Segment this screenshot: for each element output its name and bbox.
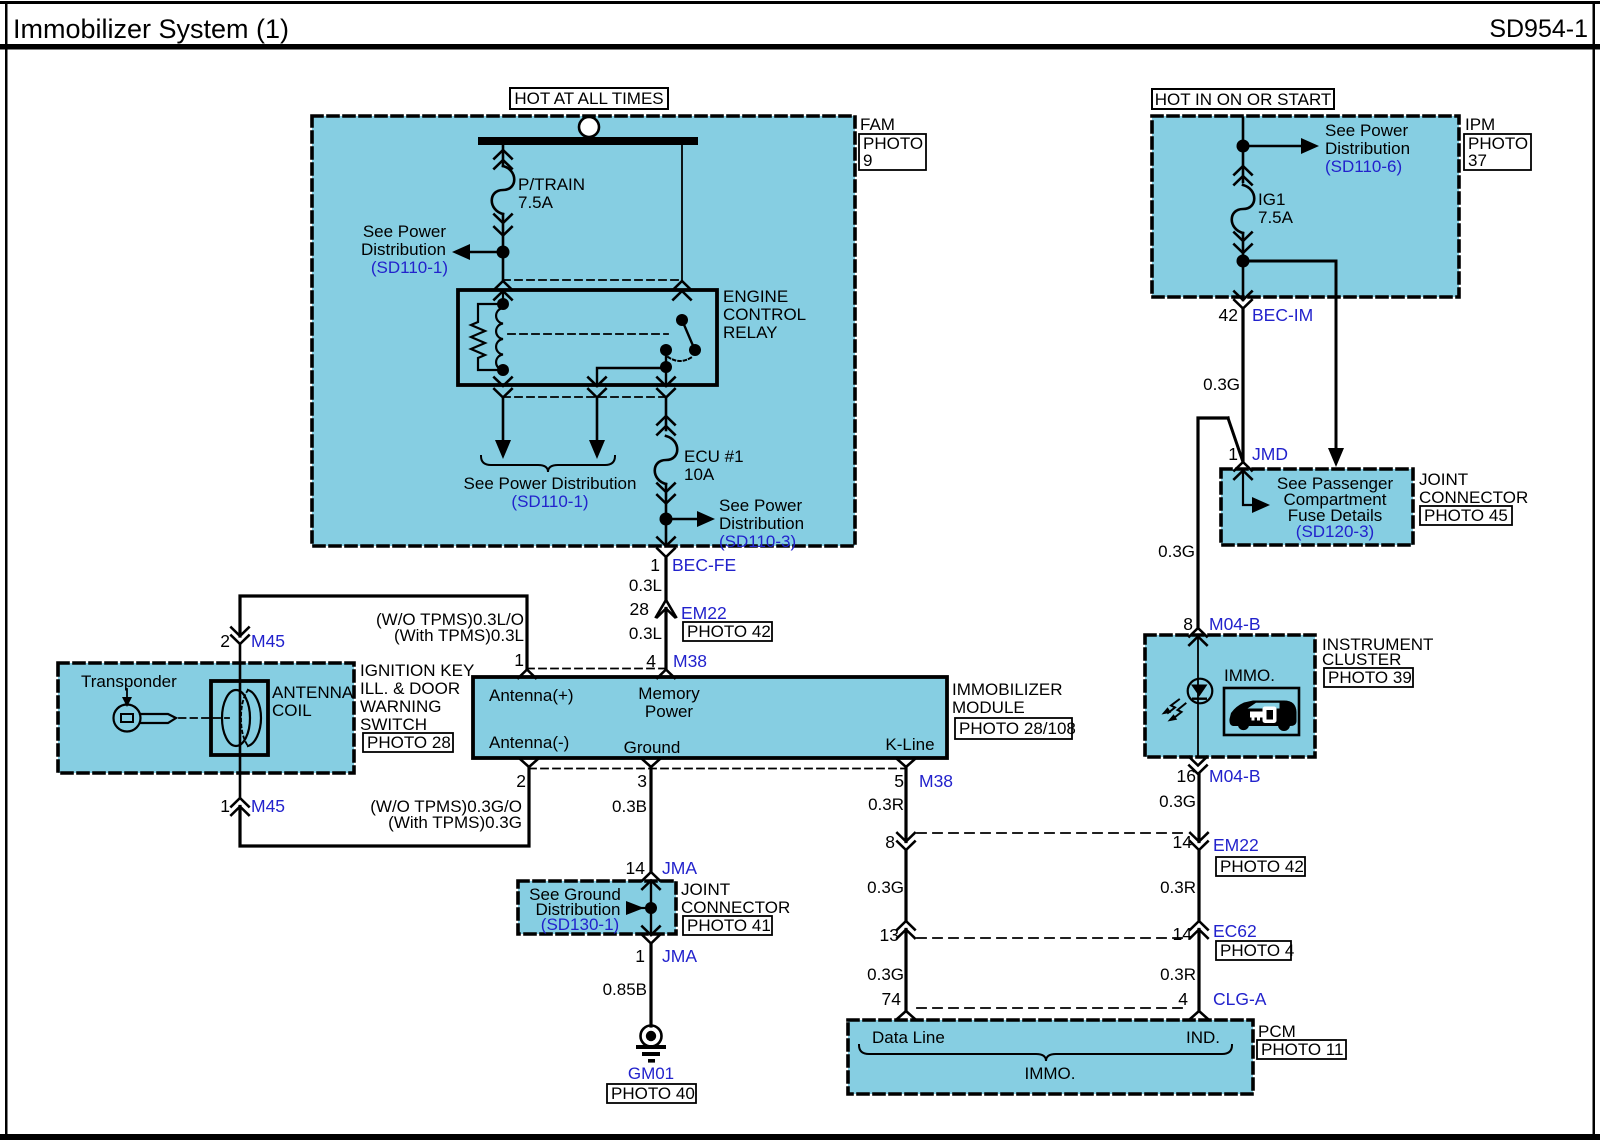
svg-text:0.3B: 0.3B — [612, 797, 647, 816]
wire fuse to FAM exit — [665, 484, 668, 546]
wire 0.3L EM22 to module — [664, 609, 667, 670]
svg-text:PHOTO 11: PHOTO 11 — [1261, 1040, 1344, 1059]
svg-text:PCM: PCM — [1258, 1022, 1296, 1041]
battery feed terminal circle — [579, 117, 599, 137]
fuse IG1 7.5A — [1232, 166, 1255, 253]
wire bottom loop M45 to module pin2 — [240, 767, 529, 846]
right wire 0.3G M04-B to EM22 — [1197, 774, 1200, 842]
svg-text:Ground: Ground — [624, 738, 681, 757]
svg-text:PHOTO 40: PHOTO 40 — [611, 1084, 695, 1103]
pin 5 chevrons module bottom — [897, 759, 916, 768]
svg-text:M38: M38 — [919, 771, 953, 791]
IPM photo ref box — [1464, 134, 1531, 170]
FAM-SECTION — [312, 88, 926, 557]
svg-text:0.3G: 0.3G — [867, 965, 904, 984]
svg-text:See Power Distribution: See Power Distribution — [464, 474, 637, 493]
PHOTO 11 ref box — [1257, 1040, 1346, 1059]
JMA node dot — [645, 902, 657, 914]
dashed link 74 to 4 — [917, 1007, 1188, 1009]
svg-text:9: 9 — [863, 151, 872, 170]
arrow down left — [495, 440, 511, 459]
svg-text:K-Line: K-Line — [885, 735, 934, 754]
svg-text:4: 4 — [1178, 989, 1188, 1009]
svg-text:SWITCH: SWITCH — [360, 715, 427, 734]
LED cathode bar — [1192, 698, 1207, 700]
wire bus to fuse P/TRAIN — [502, 145, 505, 166]
svg-text:GM01: GM01 — [628, 1064, 674, 1083]
brace see power distribution — [481, 456, 615, 472]
connector chevrons relay pin left top — [494, 281, 512, 300]
wire 0.3G down to JMD — [1241, 309, 1244, 463]
PHOTO 42 ref box lower — [1216, 857, 1305, 876]
svg-text:14: 14 — [626, 858, 646, 878]
svg-text:M38: M38 — [673, 651, 707, 671]
JMA joint connector box — [518, 881, 676, 934]
pin 4 chevrons PCM — [1190, 1011, 1209, 1020]
svg-text:EC62: EC62 — [1213, 921, 1257, 941]
antenna coil unit box — [58, 663, 354, 773]
svg-text:Antenna(-): Antenna(-) — [489, 733, 569, 752]
JMA internal arrow to node — [626, 901, 644, 915]
svg-text:See Power: See Power — [1325, 121, 1408, 140]
svg-text:JMD: JMD — [1252, 444, 1288, 464]
wire 0.3B module pin3 to JMA — [649, 767, 652, 872]
svg-text:IMMOBILIZER: IMMOBILIZER — [952, 680, 1063, 699]
svg-text:Distribution: Distribution — [361, 240, 446, 259]
PHOTO 39 ref box — [1324, 668, 1413, 687]
wire 0.85B JMA to ground — [649, 944, 652, 1027]
svg-text:MODULE: MODULE — [952, 698, 1025, 717]
svg-text:HOT AT ALL TIMES: HOT AT ALL TIMES — [514, 89, 663, 108]
svg-text:IMMO.: IMMO. — [1224, 666, 1275, 685]
svg-text:IPM: IPM — [1465, 115, 1495, 134]
svg-text:CLG-A: CLG-A — [1213, 989, 1267, 1009]
fuse ECU #1 10A — [655, 416, 678, 504]
svg-text:(SD130-1): (SD130-1) — [541, 915, 619, 934]
arrow to power distribution SD110-6 — [1243, 145, 1310, 147]
IPM exit chevrons BEC-IM — [1234, 292, 1252, 309]
dashed link 8 to 14 — [917, 832, 1188, 834]
dashed link module bottom pins — [529, 768, 906, 770]
wire bus to relay right — [681, 145, 683, 281]
wire top loop M45 to module pin1 — [240, 596, 527, 670]
diagonal wire segment — [1228, 418, 1243, 462]
svg-text:1: 1 — [514, 650, 524, 670]
dashed link 13 to 14 — [917, 937, 1188, 939]
relay bottom pin chevrons middle — [588, 378, 606, 398]
connector 13 chevrons — [897, 921, 915, 938]
connector 28 EM22 chevrons — [656, 600, 676, 617]
svg-text:0.3R: 0.3R — [1160, 965, 1196, 984]
MODULE-SECTION — [473, 555, 1076, 791]
svg-text:28: 28 — [630, 599, 649, 619]
svg-text:M45: M45 — [251, 631, 285, 651]
FAM photo ref box — [859, 134, 926, 170]
arrow to power distribution SD110-3 — [666, 518, 706, 520]
svg-text:CONNECTOR: CONNECTOR — [1419, 488, 1528, 507]
svg-text:0.3R: 0.3R — [1160, 878, 1196, 897]
svg-text:37: 37 — [1468, 151, 1487, 170]
PHOTO 4 ref box — [1216, 941, 1291, 960]
ANTENNA-SECTION — [58, 596, 529, 846]
pin 3 chevrons module bottom — [642, 759, 661, 768]
svg-text:M04-B: M04-B — [1209, 614, 1261, 634]
svg-text:PHOTO 4: PHOTO 4 — [1220, 941, 1294, 960]
pin 1 JMA chevrons — [642, 927, 660, 944]
svg-text:0.3R: 0.3R — [868, 795, 904, 814]
dashed coupling line — [179, 717, 229, 719]
svg-text:WARNING: WARNING — [360, 697, 442, 716]
JMA internal wire — [650, 881, 652, 936]
svg-text:Immobilizer System (1): Immobilizer System (1) — [13, 14, 289, 44]
dashed link relay bottom — [503, 396, 666, 398]
JMD joint connector box — [1221, 469, 1413, 545]
right wire 0.3R lower — [1197, 930, 1200, 1012]
svg-text:EM22: EM22 — [1213, 835, 1259, 855]
FAM fuse/relay box — [312, 116, 855, 546]
relay resistor (parallel) — [471, 304, 503, 370]
pin 2 chevrons module bottom — [520, 759, 539, 768]
svg-text:1: 1 — [220, 796, 230, 816]
svg-text:42: 42 — [1219, 305, 1238, 325]
pin 74 chevrons PCM — [897, 1011, 916, 1020]
svg-text:BEC-FE: BEC-FE — [672, 555, 736, 575]
svg-text:PHOTO 28/108: PHOTO 28/108 — [959, 719, 1076, 738]
dashed link relay top — [503, 279, 682, 281]
junction node dot — [1237, 255, 1250, 268]
pin 2 M45 chevrons — [231, 628, 249, 645]
PCM brace — [859, 1045, 1232, 1061]
CLUSTER-SECTION — [1145, 614, 1433, 786]
FAM exit chevrons BEC-FE — [657, 538, 675, 558]
svg-text:JMA: JMA — [662, 946, 697, 966]
car rear wheel — [1278, 719, 1290, 731]
svg-text:1: 1 — [650, 555, 660, 575]
svg-text:M04-B: M04-B — [1209, 766, 1261, 786]
IPM-SECTION — [1152, 89, 1531, 628]
K-line wire 0.3G — [904, 850, 907, 921]
car window — [1248, 703, 1280, 709]
relay box ENGINE CONTROL RELAY — [458, 290, 717, 385]
wire fuse to junction — [502, 214, 505, 281]
pin 1 M45 chevrons — [231, 798, 249, 815]
relay linkage dashed line — [508, 333, 668, 335]
svg-text:Power: Power — [645, 702, 694, 721]
svg-text:PHOTO 28: PHOTO 28 — [367, 733, 451, 752]
fuse P/TRAIN 7.5A — [492, 150, 515, 236]
svg-text:FAM: FAM — [860, 115, 895, 134]
wire relay left pin down — [502, 398, 505, 443]
svg-text:0.3L: 0.3L — [629, 576, 662, 595]
svg-text:Antenna(+): Antenna(+) — [489, 686, 574, 705]
ground GM01 symbol — [641, 1026, 662, 1047]
svg-text:0.3G: 0.3G — [1159, 792, 1196, 811]
wire relay right pin to fuse — [665, 398, 668, 431]
immobilizer module box — [473, 677, 947, 758]
svg-text:(SD110-6): (SD110-6) — [1325, 157, 1402, 176]
svg-text:14: 14 — [1173, 924, 1193, 944]
svg-text:74: 74 — [882, 989, 902, 1009]
svg-text:7.5A: 7.5A — [1258, 208, 1294, 227]
svg-text:(With TPMS)0.3L: (With TPMS)0.3L — [394, 626, 524, 645]
JMD pin chevrons — [1234, 462, 1252, 479]
car icon box — [1224, 688, 1299, 735]
svg-text:0.3G: 0.3G — [1203, 375, 1240, 394]
relay coil — [502, 291, 504, 308]
label HOT AT ALL TIMES — [510, 88, 668, 109]
svg-text:Data Line: Data Line — [872, 1028, 945, 1047]
coil ellipse left — [222, 690, 250, 746]
svg-text:(SD110-3): (SD110-3) — [719, 532, 796, 551]
svg-text:CONTROL: CONTROL — [723, 305, 806, 324]
bus bar — [478, 137, 698, 145]
right wire 0.3R — [1197, 850, 1200, 921]
relay switch — [676, 314, 688, 326]
svg-text:(SD110-1): (SD110-1) — [511, 492, 588, 511]
LED light arrows — [1168, 700, 1186, 718]
relay bottom pin chevrons left — [494, 378, 512, 398]
svg-text:Memory: Memory — [638, 684, 700, 703]
svg-text:3: 3 — [637, 771, 647, 791]
svg-text:BEC-IM: BEC-IM — [1252, 305, 1313, 325]
svg-text:1: 1 — [635, 946, 645, 966]
transponder chip rect — [121, 714, 133, 722]
PHOTO 42 ref box — [683, 622, 772, 641]
svg-text:CLUSTER: CLUSTER — [1322, 650, 1401, 669]
svg-text:(SD120-3): (SD120-3) — [1296, 522, 1374, 541]
junction node dot — [1237, 140, 1250, 153]
svg-text:2: 2 — [516, 771, 526, 791]
svg-text:14: 14 — [1173, 832, 1193, 852]
dashed link module top pins — [527, 668, 666, 670]
svg-text:5: 5 — [894, 771, 904, 791]
svg-text:Distribution: Distribution — [719, 514, 804, 533]
wire IPM feed — [1242, 118, 1245, 182]
svg-text:2: 2 — [220, 631, 230, 651]
svg-text:PHOTO 42: PHOTO 42 — [687, 622, 771, 641]
wire relay middle pin down — [596, 398, 599, 443]
svg-text:P/TRAIN: P/TRAIN — [518, 175, 585, 194]
pin 16 chevrons — [1189, 757, 1207, 774]
left border line — [5, 1, 8, 1140]
svg-text:13: 13 — [880, 925, 899, 945]
connector 14 EC62 chevrons — [1190, 921, 1208, 938]
transponder pointer arrow — [126, 689, 128, 699]
svg-text:ENGINE: ENGINE — [723, 287, 788, 306]
wire M45 into antenna coil — [239, 644, 242, 798]
svg-text:See Power: See Power — [719, 496, 802, 515]
svg-text:JOINT: JOINT — [681, 880, 730, 899]
branch wire to instrument cluster — [1198, 418, 1228, 628]
top border line — [0, 1, 1600, 4]
svg-text:8: 8 — [885, 832, 895, 852]
svg-text:JOINT: JOINT — [1419, 470, 1468, 489]
arrow down middle — [589, 440, 605, 459]
pin 14 JMA chevrons — [642, 872, 660, 889]
svg-text:EM22: EM22 — [681, 603, 727, 623]
svg-text:Transponder: Transponder — [81, 672, 177, 691]
coil hidden edge dotted — [241, 690, 248, 746]
svg-text:(SD110-1): (SD110-1) — [371, 258, 448, 277]
PHOTO 28 ref box — [363, 733, 453, 752]
switch output wire — [665, 350, 667, 386]
svg-text:IND.: IND. — [1186, 1028, 1220, 1047]
svg-text:7.5A: 7.5A — [518, 193, 554, 212]
junction node dot — [497, 246, 510, 259]
car key overlay — [1263, 707, 1277, 724]
svg-text:PHOTO 41: PHOTO 41 — [687, 916, 771, 935]
PHOTO 28/108 ref box — [955, 718, 1072, 739]
svg-text:HOT IN ON OR START: HOT IN ON OR START — [1155, 90, 1332, 109]
car front wheel — [1238, 719, 1249, 730]
svg-text:ECU #1: ECU #1 — [684, 447, 744, 466]
junction node dot — [660, 513, 673, 526]
wire 0.3L BEC-FE to EM22 — [664, 557, 667, 600]
IMMO LED circle — [1188, 679, 1213, 704]
svg-text:(With TPMS)0.3G: (With TPMS)0.3G — [388, 813, 522, 832]
title separator thick line — [0, 44, 1600, 50]
svg-text:16: 16 — [1177, 766, 1196, 786]
PCM-SECTION — [848, 767, 1346, 1094]
svg-text:RELAY: RELAY — [723, 323, 778, 342]
car silhouette — [1229, 701, 1296, 727]
PHOTO 45 ref box — [1420, 506, 1512, 525]
svg-text:M45: M45 — [251, 796, 285, 816]
branch wire to JMD arrow — [1243, 261, 1336, 450]
svg-text:COIL: COIL — [272, 701, 312, 720]
svg-text:IGNITION KEY: IGNITION KEY — [360, 661, 474, 680]
svg-text:IMMO.: IMMO. — [1025, 1064, 1076, 1083]
arrow into JMD box — [1328, 448, 1344, 467]
connector chevrons relay pin right top — [673, 281, 691, 300]
svg-text:0.3L: 0.3L — [629, 624, 662, 643]
K-line wire 0.3G lower — [904, 930, 907, 1012]
IPM box — [1152, 116, 1459, 297]
svg-text:JMA: JMA — [662, 858, 697, 878]
LED triangle — [1191, 685, 1208, 697]
svg-text:PHOTO 39: PHOTO 39 — [1328, 668, 1412, 687]
svg-text:10A: 10A — [684, 465, 715, 484]
instrument cluster box — [1145, 635, 1315, 757]
svg-text:0.3G: 0.3G — [867, 878, 904, 897]
svg-text:CONNECTOR: CONNECTOR — [681, 898, 790, 917]
connector 14 EM22 chevrons — [1190, 833, 1208, 850]
svg-text:1: 1 — [1228, 444, 1238, 464]
pin 8 M04-B chevrons — [1189, 628, 1207, 645]
K-line wire 0.3R — [904, 767, 907, 842]
svg-text:0.3G: 0.3G — [1158, 542, 1195, 561]
right border line — [1593, 1, 1596, 1140]
PHOTO 41 ref box — [683, 916, 772, 935]
wire fuse to IPM exit — [1242, 233, 1245, 300]
GROUND-SECTION — [518, 767, 790, 1103]
svg-text:PHOTO 42: PHOTO 42 — [1220, 857, 1304, 876]
svg-text:See Power: See Power — [363, 222, 446, 241]
cluster internal wire — [1197, 637, 1199, 758]
svg-text:0.85B: 0.85B — [603, 980, 647, 999]
label HOT IN ON OR START — [1152, 89, 1334, 109]
PCM box — [848, 1020, 1253, 1094]
svg-text:IG1: IG1 — [1258, 190, 1285, 209]
svg-text:ANTENNA: ANTENNA — [272, 683, 354, 702]
svg-text:SD954-1: SD954-1 — [1489, 15, 1588, 43]
svg-text:ILL. & DOOR: ILL. & DOOR — [360, 679, 460, 698]
pin 1 chevrons module top — [518, 670, 536, 679]
coil ellipse right — [248, 690, 261, 746]
wire switch to middle pin — [597, 368, 666, 386]
key blade — [140, 714, 176, 723]
svg-text:8: 8 — [1183, 614, 1193, 634]
svg-text:PHOTO 45: PHOTO 45 — [1424, 506, 1508, 525]
connector 8 chevrons — [897, 833, 915, 850]
JMD internal arrow — [1243, 471, 1252, 506]
svg-text:Distribution: Distribution — [1325, 139, 1410, 158]
antenna coil inner box — [211, 681, 268, 755]
arrow to power distribution SD110-1 — [459, 251, 503, 253]
key head circle — [114, 705, 141, 732]
PHOTO 40 ref box — [607, 1084, 696, 1103]
relay bottom pin chevrons right — [657, 378, 675, 398]
pin 4 chevrons module top — [657, 670, 675, 679]
bottom border line — [0, 1134, 1600, 1140]
